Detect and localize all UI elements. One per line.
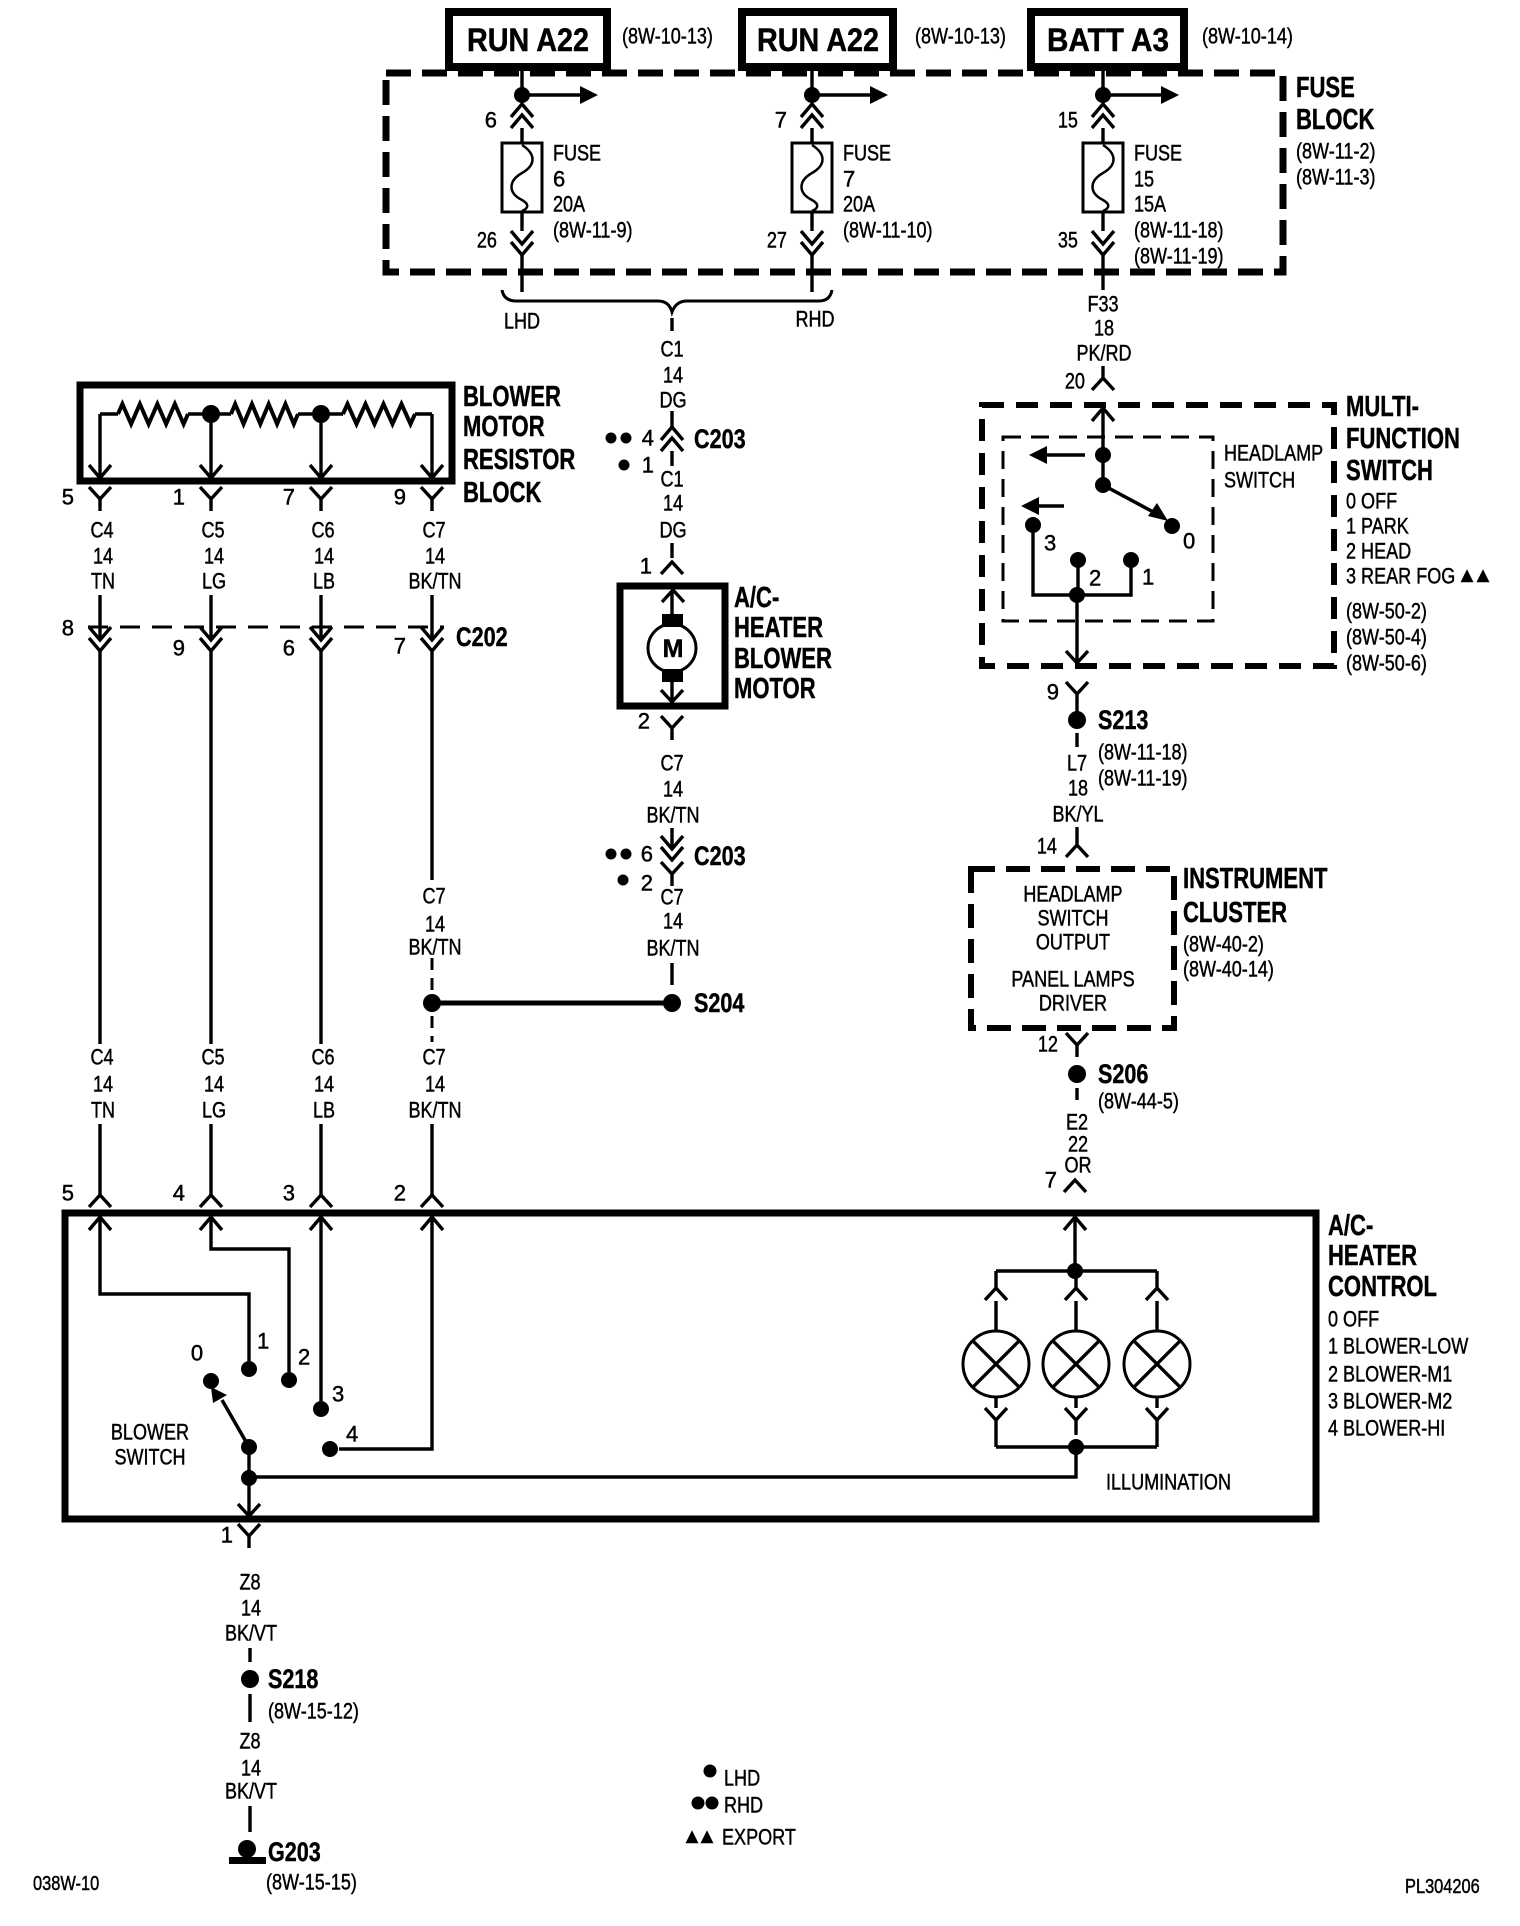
svg-text:BK/VT: BK/VT xyxy=(225,1779,277,1804)
svg-text:SWITCH: SWITCH xyxy=(1037,906,1108,931)
svg-text:2: 2 xyxy=(641,871,653,896)
wire lamp 2 to bottom fork xyxy=(1074,1397,1077,1408)
illumination lamp 3 bottom fork xyxy=(1146,1408,1168,1420)
svg-text:(8W-10-14): (8W-10-14) xyxy=(1202,24,1293,49)
svg-text:7: 7 xyxy=(775,108,787,133)
wire into C202 at x=211 xyxy=(209,595,212,637)
svg-text:7: 7 xyxy=(1045,1168,1057,1193)
node headlamp switch feed upper xyxy=(1095,447,1111,463)
svg-text:TN: TN xyxy=(91,569,115,594)
node headlamp switch contact 1 xyxy=(1123,552,1139,568)
svg-text:A/C-: A/C- xyxy=(734,582,779,614)
svg-text:1: 1 xyxy=(1142,565,1154,590)
wire pin 27 to fuse block edge xyxy=(810,255,813,276)
connector pin 7 above fuse 7 xyxy=(801,104,823,117)
node resistor tap 2 xyxy=(312,405,330,423)
svg-text:35: 35 xyxy=(1058,228,1078,253)
svg-text:7: 7 xyxy=(394,634,406,659)
svg-text:INSTRUMENT: INSTRUMENT xyxy=(1183,863,1328,895)
svg-text:18: 18 xyxy=(1068,776,1088,801)
node RUN A22 feed box 1 xyxy=(449,12,607,67)
svg-text:BK/TN: BK/TN xyxy=(408,935,461,960)
node illumination feed junction xyxy=(1067,1263,1083,1279)
wire into G203 xyxy=(248,1806,251,1832)
svg-text:(8W-40-14): (8W-40-14) xyxy=(1183,957,1274,982)
connector C202 pin 6 xyxy=(310,627,332,640)
svg-text:S213: S213 xyxy=(1098,705,1148,735)
wire pin to fuse 15 xyxy=(1101,128,1104,143)
svg-text:HEATER: HEATER xyxy=(1328,1240,1417,1272)
svg-text:9: 9 xyxy=(1047,680,1059,705)
node blower switch output junction xyxy=(241,1470,257,1486)
svg-text:OR: OR xyxy=(1064,1153,1091,1178)
connector pin 2 at A/C-heater control xyxy=(421,1195,443,1207)
svg-text:C7: C7 xyxy=(422,1045,445,1070)
svg-text:S204: S204 xyxy=(694,988,744,1018)
arrow tap to other circuits at fuse 7 xyxy=(812,93,870,96)
A/C-heater control pin 3 male chevron xyxy=(310,1217,332,1230)
connector C202 pin 9 xyxy=(200,627,222,640)
illumination lamp 2 xyxy=(1043,1331,1109,1397)
connector C202 pin 8 xyxy=(89,627,111,640)
svg-text:(8W-11-3): (8W-11-3) xyxy=(1296,165,1376,190)
wire resistor block terminal x=321 xyxy=(319,414,322,477)
resistor bus R1-R2 xyxy=(188,412,231,415)
wire resistor block terminal x=211 xyxy=(209,414,212,477)
svg-text:DG: DG xyxy=(659,518,686,543)
wire into instrument cluster xyxy=(1075,827,1078,845)
svg-text:RUN A22: RUN A22 xyxy=(467,22,589,58)
svg-text:MOTOR: MOTOR xyxy=(463,411,545,443)
svg-text:(8W-40-2): (8W-40-2) xyxy=(1183,932,1264,957)
node illumination return junction xyxy=(1068,1439,1084,1455)
headlamp switch wiper arm xyxy=(1103,485,1157,514)
motor M symbol xyxy=(648,624,696,672)
svg-text:14: 14 xyxy=(314,1072,334,1097)
svg-text:20: 20 xyxy=(1065,369,1085,394)
svg-text:2: 2 xyxy=(1089,566,1101,591)
splice S204 horizontal wire xyxy=(432,1001,672,1006)
svg-text:1 BLOWER-LOW: 1 BLOWER-LOW xyxy=(1328,1334,1468,1359)
svg-text:(8W-11-18): (8W-11-18) xyxy=(1098,740,1188,765)
connector pin 2 below blower motor xyxy=(661,716,683,728)
node S218 splice xyxy=(241,1670,259,1688)
ground G203 xyxy=(238,1840,256,1858)
svg-text:5: 5 xyxy=(62,485,74,510)
svg-text:RUN A22: RUN A22 xyxy=(757,22,879,58)
wire pin 5 to switch contact 1 xyxy=(100,1218,249,1361)
node S204 right xyxy=(663,994,681,1012)
svg-text:9: 9 xyxy=(173,636,185,661)
wire pin 20 to headlamp switch common xyxy=(1101,409,1104,485)
illumination lamp 3 xyxy=(1124,1331,1190,1397)
svg-text:RESISTOR: RESISTOR xyxy=(463,444,575,476)
svg-text:C203: C203 xyxy=(694,841,746,871)
fuse F7 20A xyxy=(792,143,832,212)
illumination lamp 2 top fork xyxy=(1065,1288,1087,1300)
node headlamp switch output junction xyxy=(1069,587,1085,603)
svg-text:15: 15 xyxy=(1058,108,1078,133)
connector pin 3 at A/C-heater control xyxy=(310,1195,332,1207)
resistor block internal bus entry xyxy=(100,412,118,415)
svg-text:14: 14 xyxy=(204,1072,224,1097)
svg-text:2 HEAD: 2 HEAD xyxy=(1346,539,1411,564)
svg-text:PL304206: PL304206 xyxy=(1405,1876,1480,1898)
wire fuse 6 to pin 26 xyxy=(520,212,523,231)
svg-text:BLOWER: BLOWER xyxy=(111,1420,189,1445)
connector pin 12 below instrument cluster xyxy=(1066,1033,1088,1045)
svg-text:C4: C4 xyxy=(90,518,113,543)
multi-function switch dashed boundary xyxy=(982,405,1334,666)
motor brush upper xyxy=(662,614,683,627)
blower motor resistor block box xyxy=(80,385,452,481)
node junction at fuse 15 feed xyxy=(1095,87,1111,103)
svg-text:3: 3 xyxy=(283,1181,295,1206)
wire contact 1 to output xyxy=(1083,560,1131,595)
wire pin to fuse 6 xyxy=(520,128,523,143)
wire to illumination lamp 1 xyxy=(994,1271,997,1288)
svg-text:14: 14 xyxy=(425,544,445,569)
connector pin 26 below fuse 6 xyxy=(511,231,533,244)
wire into S218 xyxy=(248,1648,251,1662)
svg-text:C5: C5 xyxy=(201,518,224,543)
svg-text:6: 6 xyxy=(641,842,653,867)
svg-text:BLOCK: BLOCK xyxy=(1296,104,1374,136)
multi-function switch pin 20 male chevron xyxy=(1092,408,1114,421)
wire C7 dashed below S204 xyxy=(431,1016,434,1042)
connector pin 9 below multi-function switch xyxy=(1066,682,1088,694)
svg-text:15: 15 xyxy=(1134,167,1154,192)
illumination lamp 1 xyxy=(963,1331,1029,1397)
svg-text:CLUSTER: CLUSTER xyxy=(1183,897,1287,929)
svg-text:(8W-50-4): (8W-50-4) xyxy=(1346,625,1427,650)
svg-text:F33: F33 xyxy=(1087,292,1118,317)
svg-text:6: 6 xyxy=(283,636,295,661)
wire lamp 1 to bottom fork xyxy=(994,1397,997,1408)
svg-text:FUSE: FUSE xyxy=(1134,141,1182,166)
connector pin 7 at A/C-heater control xyxy=(1064,1180,1086,1192)
svg-text:C5: C5 xyxy=(201,1045,224,1070)
svg-text:8: 8 xyxy=(62,616,74,641)
node blower switch contact 0 xyxy=(203,1373,219,1389)
svg-text:C7: C7 xyxy=(660,751,683,776)
svg-text:(8W-50-2): (8W-50-2) xyxy=(1346,599,1427,624)
svg-text:2: 2 xyxy=(394,1181,406,1206)
fuse F15 15A xyxy=(1083,143,1123,212)
wire to motor brush xyxy=(670,591,673,616)
svg-text:LG: LG xyxy=(202,1098,226,1123)
svg-text:(8W-11-19): (8W-11-19) xyxy=(1134,244,1224,269)
wire pin 35 to fuse block edge xyxy=(1101,255,1104,276)
motor brush lower xyxy=(662,669,683,682)
svg-text:EXPORT: EXPORT xyxy=(722,1825,796,1850)
svg-text:C4: C4 xyxy=(90,1045,113,1070)
svg-text:FUSE: FUSE xyxy=(553,141,601,166)
svg-text:RHD: RHD xyxy=(724,1793,763,1818)
svg-text:BK/TN: BK/TN xyxy=(646,803,699,828)
svg-text:2: 2 xyxy=(638,709,650,734)
svg-text:(8W-11-19): (8W-11-19) xyxy=(1098,766,1188,791)
svg-text:1: 1 xyxy=(173,485,185,510)
svg-text:14: 14 xyxy=(93,544,113,569)
svg-text:1: 1 xyxy=(640,554,652,579)
wire below merge brace xyxy=(670,318,673,331)
svg-text:C6: C6 xyxy=(311,1045,334,1070)
svg-text:3 BLOWER-M2: 3 BLOWER-M2 xyxy=(1328,1389,1452,1414)
connector pin 35 below fuse 15 xyxy=(1092,231,1114,244)
svg-text:14: 14 xyxy=(93,1072,113,1097)
wire into connector C203 xyxy=(670,411,673,427)
svg-text:3: 3 xyxy=(1044,531,1056,556)
svg-text:C203: C203 xyxy=(694,424,746,454)
illumination lamp 1 bottom fork xyxy=(985,1408,1007,1420)
connector pin 9 below resistor block xyxy=(421,487,443,499)
svg-text:3 REAR FOG: 3 REAR FOG xyxy=(1346,564,1455,589)
svg-text:C1: C1 xyxy=(660,467,683,492)
arrow tap to other circuits at fuse 6 xyxy=(522,93,580,96)
wire into C202 at x=432 xyxy=(430,595,433,637)
wire from feed box 3 into fuse block xyxy=(1101,67,1104,95)
node RUN A22 feed box 2 xyxy=(742,12,893,67)
illumination lamp 2 bottom fork xyxy=(1065,1408,1087,1420)
connector pin 6 above fuse 6 xyxy=(511,104,533,117)
svg-text:C7: C7 xyxy=(422,884,445,909)
svg-text:14: 14 xyxy=(663,363,683,388)
wire illumination return xyxy=(249,1447,1076,1477)
svg-text:HEADLAMP: HEADLAMP xyxy=(1224,441,1323,466)
instrument cluster dashed boundary xyxy=(971,869,1174,1028)
wire motor to pin 2 xyxy=(670,682,673,701)
svg-text:1: 1 xyxy=(257,1329,269,1354)
svg-text:1: 1 xyxy=(221,1523,233,1548)
node blower switch pivot xyxy=(241,1439,257,1455)
illumination lamp 1 top fork xyxy=(985,1288,1007,1300)
wire fuse 15 to pin 35 xyxy=(1101,212,1104,231)
blower switch output chevron xyxy=(238,1504,260,1516)
A/C-heater control box xyxy=(65,1213,1316,1519)
svg-text:BATT A3: BATT A3 xyxy=(1047,22,1169,58)
wire fork to lamp 1 xyxy=(994,1301,997,1332)
svg-text:14: 14 xyxy=(663,909,683,934)
node blower switch contact 4 xyxy=(322,1441,338,1457)
svg-text:MOTOR: MOTOR xyxy=(734,673,816,705)
svg-text:(8W-15-15): (8W-15-15) xyxy=(266,1870,357,1895)
svg-text:FUSE: FUSE xyxy=(843,141,891,166)
svg-text:TN: TN xyxy=(91,1098,115,1123)
connector pin 5 below resistor block xyxy=(89,487,111,499)
svg-text:S218: S218 xyxy=(268,1664,318,1694)
headlamp switch throw arrow upper xyxy=(1029,446,1047,464)
svg-text:OUTPUT: OUTPUT xyxy=(1036,930,1110,955)
A/C-heater control pin 2 male chevron xyxy=(421,1217,443,1230)
svg-text:(8W-44-5): (8W-44-5) xyxy=(1098,1089,1179,1114)
wire C4 to A/C-heater control xyxy=(98,1124,101,1195)
svg-text:7: 7 xyxy=(283,485,295,510)
svg-text:7: 7 xyxy=(843,167,855,192)
node blower switch contact 2 xyxy=(281,1372,297,1388)
wire from feed box 2 into fuse block xyxy=(810,67,813,95)
svg-text:BK/TN: BK/TN xyxy=(408,569,461,594)
arrow tap to other circuits at fuse 15 xyxy=(1103,93,1161,96)
wire C7 to A/C-heater control xyxy=(430,1124,433,1195)
wire output junction to box edge xyxy=(1075,595,1078,662)
svg-text:0 OFF: 0 OFF xyxy=(1346,489,1397,514)
svg-text:Z8: Z8 xyxy=(239,1729,260,1754)
svg-text:LB: LB xyxy=(313,1098,335,1123)
svg-text:(8W-11-2): (8W-11-2) xyxy=(1296,139,1376,164)
svg-text:BLOWER: BLOWER xyxy=(734,643,832,675)
svg-text:4: 4 xyxy=(346,1422,358,1447)
svg-text:1: 1 xyxy=(642,453,654,478)
headlamp switch throw arrow lower xyxy=(1021,497,1039,515)
wire fuse 7 output stub xyxy=(810,276,813,292)
svg-text:14: 14 xyxy=(425,912,445,937)
legend LHD xyxy=(704,1765,717,1778)
svg-text:G203: G203 xyxy=(268,1837,321,1867)
resistor block terminal chevron 1 xyxy=(200,465,222,478)
wire C5 from C202 to label xyxy=(209,651,212,1044)
multi-function switch output chevron xyxy=(1066,651,1088,663)
headlamp switch inner dashed boundary xyxy=(1003,437,1213,621)
svg-text:BK/TN: BK/TN xyxy=(408,1098,461,1123)
svg-text:(8W-50-6): (8W-50-6) xyxy=(1346,651,1427,676)
connector C203 lower (pins 6 LHD / 2 RHD) xyxy=(661,836,683,849)
wire F33 from fuse block xyxy=(1101,276,1104,290)
svg-text:(8W-10-13): (8W-10-13) xyxy=(622,24,713,49)
svg-text:BLOWER: BLOWER xyxy=(463,381,561,413)
svg-text:18: 18 xyxy=(1094,316,1114,341)
wire pivot to illumination junction xyxy=(247,1447,250,1515)
wire C6 from C202 to label xyxy=(319,651,322,1044)
wire to illumination lamp 2 xyxy=(1074,1271,1077,1288)
svg-text:2: 2 xyxy=(298,1345,310,1370)
node blower switch contact 3 xyxy=(313,1401,329,1417)
resistor R3 xyxy=(343,404,415,424)
svg-text:12: 12 xyxy=(1038,1032,1058,1057)
svg-text:3: 3 xyxy=(332,1382,344,1407)
svg-text:M: M xyxy=(663,635,684,663)
wire pin 4 to switch contact 2 xyxy=(211,1218,289,1372)
svg-text:FUNCTION: FUNCTION xyxy=(1346,423,1460,455)
node junction at fuse 7 feed xyxy=(804,87,820,103)
svg-text:27: 27 xyxy=(767,228,787,253)
wire into connector C203 lower xyxy=(670,828,673,847)
wire C7 from C202 to label xyxy=(430,651,433,880)
connector pin 5 at A/C-heater control xyxy=(89,1195,111,1207)
svg-text:(8W-10-13): (8W-10-13) xyxy=(915,24,1006,49)
svg-text:L7: L7 xyxy=(1067,751,1087,776)
svg-text:5: 5 xyxy=(62,1181,74,1206)
fuse F6 20A xyxy=(502,143,542,212)
svg-text:20A: 20A xyxy=(553,192,585,217)
node headlamp switch wiper pivot xyxy=(1095,477,1111,493)
connector pin 14 at instrument cluster xyxy=(1066,845,1088,857)
svg-text:HEATER: HEATER xyxy=(734,612,823,644)
node S206 splice xyxy=(1068,1065,1086,1083)
wire from feed box 1 into fuse block xyxy=(520,67,523,95)
wire C6 to A/C-heater control xyxy=(319,1124,322,1195)
wire stub below S206 xyxy=(1075,1088,1078,1100)
wire pin 7 to illumination junction xyxy=(1073,1218,1076,1271)
wire resistor block terminal x=100 xyxy=(98,414,101,477)
connector pin 20 at multi-function switch xyxy=(1092,378,1114,390)
svg-text:14: 14 xyxy=(663,491,683,516)
node headlamp switch contact 3 xyxy=(1025,517,1041,533)
svg-text:RHD: RHD xyxy=(795,307,834,332)
resistor R2 xyxy=(231,404,298,424)
node S204 left xyxy=(423,994,441,1012)
wire fork to lamp 3 xyxy=(1155,1301,1158,1332)
svg-text:C7: C7 xyxy=(660,885,683,910)
resistor bus R2-R3 xyxy=(298,412,343,415)
svg-text:14: 14 xyxy=(204,544,224,569)
svg-text:4 BLOWER-HI: 4 BLOWER-HI xyxy=(1328,1416,1445,1441)
connector pin 4 at A/C-heater control xyxy=(200,1195,222,1207)
connector C202 dashed line xyxy=(88,626,444,629)
wire resistor block terminal x=432 xyxy=(430,414,433,477)
wire into C202 at x=321 xyxy=(319,595,322,637)
svg-text:6: 6 xyxy=(553,167,565,192)
connector pin 1 below resistor block xyxy=(200,487,222,499)
wire pin 26 to fuse block edge xyxy=(520,255,523,276)
LHD/RHD merge brace xyxy=(502,290,832,312)
wire contact 2 to output xyxy=(1076,560,1079,595)
A/C-heater control pin 4 male chevron xyxy=(200,1217,222,1230)
svg-text:BK/VT: BK/VT xyxy=(225,1621,277,1646)
svg-text:SWITCH: SWITCH xyxy=(1224,468,1295,493)
wire C7 dashed above S204 xyxy=(431,958,434,990)
svg-text:15A: 15A xyxy=(1134,192,1166,217)
wire fuse 6 output stub xyxy=(520,276,523,292)
svg-text:C7: C7 xyxy=(422,518,445,543)
svg-text:14: 14 xyxy=(314,544,334,569)
wire fuse 7 to pin 27 xyxy=(810,212,813,231)
node BATT A3 feed box xyxy=(1031,12,1184,67)
connector pin 1 below A/C-heater control xyxy=(238,1524,260,1536)
blower motor pin 1 male chevron xyxy=(662,590,684,602)
wire fork to lamp 2 xyxy=(1074,1301,1077,1332)
resistor block terminal chevron 5 xyxy=(89,465,111,478)
svg-text:14: 14 xyxy=(1037,834,1057,859)
wire pin 9 to S213 xyxy=(1075,706,1078,712)
connector pin 1 at blower motor xyxy=(661,562,683,574)
wire below S218 xyxy=(248,1694,251,1722)
resistor block terminal chevron 7 xyxy=(310,465,332,478)
svg-text:(8W-11-18): (8W-11-18) xyxy=(1134,218,1224,243)
node headlamp switch contact 2 xyxy=(1070,552,1086,568)
svg-text:20A: 20A xyxy=(843,192,875,217)
illumination lamp bus upper xyxy=(996,1269,1157,1272)
svg-text:CONTROL: CONTROL xyxy=(1328,1271,1437,1303)
svg-text:LB: LB xyxy=(313,569,335,594)
wire contact 3 to output xyxy=(1033,525,1071,595)
svg-text:C202: C202 xyxy=(456,622,508,652)
wire lamp 3 to bottom fork xyxy=(1155,1397,1158,1408)
svg-text:Z8: Z8 xyxy=(239,1570,260,1595)
svg-text:LHD: LHD xyxy=(724,1766,760,1791)
svg-text:BLOCK: BLOCK xyxy=(463,477,541,509)
blower motor pin 2 chevron xyxy=(661,690,683,702)
wire C5 to A/C-heater control xyxy=(209,1124,212,1195)
node blower switch contact 1 xyxy=(241,1361,257,1377)
A/C-heater control pin 7 male chevron xyxy=(1064,1217,1086,1230)
legend EXPORT xyxy=(686,1830,699,1843)
wire pin 2 to switch contact 4 xyxy=(339,1218,432,1449)
wire into multi-function switch xyxy=(1101,366,1104,378)
svg-text:9: 9 xyxy=(394,485,406,510)
wire stub below S213 xyxy=(1075,733,1078,747)
svg-text:(8W-11-10): (8W-11-10) xyxy=(843,218,933,243)
